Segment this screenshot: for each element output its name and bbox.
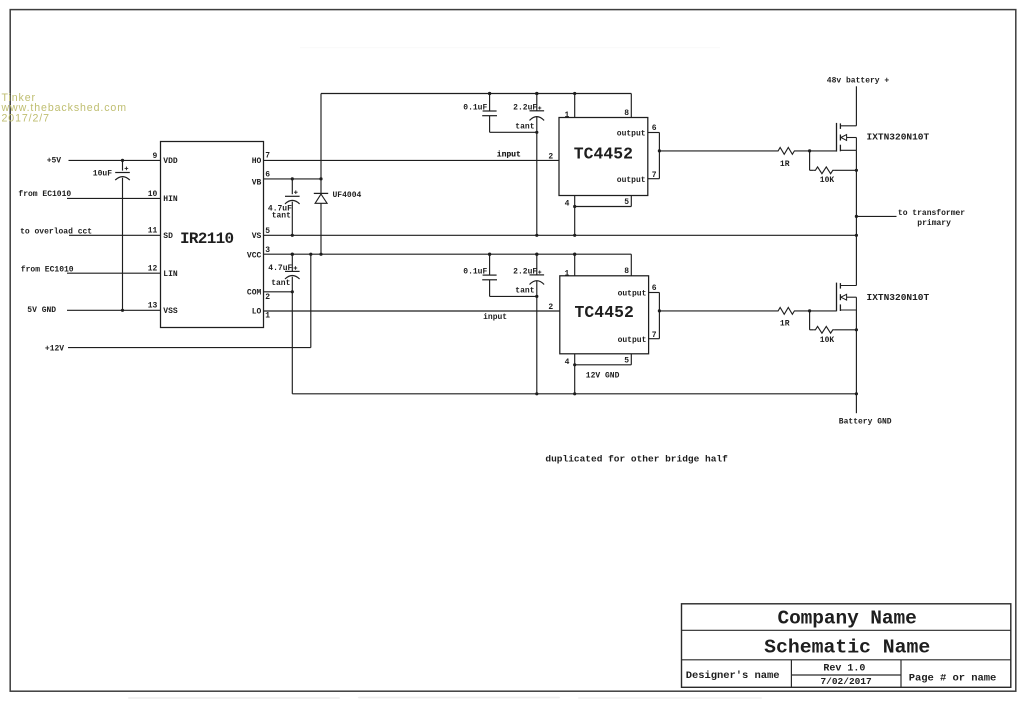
- svg-text:2.2uF: 2.2uF: [513, 267, 537, 276]
- svg-text:48v battery +: 48v battery +: [827, 76, 890, 85]
- svg-text:from EC1010: from EC1010: [21, 266, 74, 275]
- svg-text:tant: tant: [271, 279, 290, 288]
- svg-text:4: 4: [565, 358, 570, 367]
- svg-text:2: 2: [265, 293, 270, 302]
- svg-text:5: 5: [265, 227, 270, 236]
- svg-text:HIN: HIN: [163, 195, 178, 204]
- svg-text:input: input: [483, 313, 507, 322]
- svg-text:Rev 1.0: Rev 1.0: [823, 664, 865, 675]
- svg-text:8: 8: [624, 109, 629, 118]
- svg-text:6: 6: [265, 171, 270, 180]
- svg-text:TC4452: TC4452: [575, 303, 634, 322]
- svg-text:2017/2/7: 2017/2/7: [2, 112, 50, 124]
- svg-text:tant: tant: [515, 123, 534, 132]
- svg-text:10: 10: [148, 190, 158, 199]
- svg-text:6: 6: [652, 284, 657, 293]
- svg-text:7/02/2017: 7/02/2017: [820, 676, 872, 687]
- svg-text:VS: VS: [252, 232, 262, 241]
- svg-text:13: 13: [148, 302, 158, 311]
- svg-text:duplicated for other bridge ha: duplicated for other bridge half: [545, 454, 728, 465]
- svg-text:1R: 1R: [780, 320, 790, 329]
- svg-text:to transformer: to transformer: [898, 209, 965, 218]
- svg-text:5: 5: [624, 356, 629, 365]
- svg-text:1: 1: [564, 111, 569, 120]
- svg-text:output: output: [618, 336, 647, 345]
- svg-text:Battery GND: Battery GND: [839, 418, 892, 427]
- svg-text:0.1uF: 0.1uF: [463, 103, 487, 112]
- svg-text:0.1uF: 0.1uF: [463, 267, 487, 276]
- svg-text:tant: tant: [515, 287, 534, 296]
- svg-text:COM: COM: [247, 288, 262, 297]
- svg-text:9: 9: [152, 152, 157, 161]
- svg-text:11: 11: [148, 227, 158, 236]
- svg-text:5: 5: [624, 198, 629, 207]
- svg-text:tant: tant: [272, 211, 291, 220]
- svg-text:input: input: [497, 150, 521, 159]
- svg-text:2.2uF: 2.2uF: [513, 103, 537, 112]
- svg-text:output: output: [617, 176, 646, 185]
- svg-text:6: 6: [652, 124, 657, 133]
- svg-text:4.7uF: 4.7uF: [268, 264, 292, 273]
- svg-text:7: 7: [652, 171, 657, 180]
- svg-text:10K: 10K: [820, 336, 835, 345]
- svg-text:UF4004: UF4004: [333, 191, 362, 200]
- svg-text:7: 7: [265, 152, 270, 161]
- svg-text:IR2110: IR2110: [180, 230, 234, 248]
- svg-text:LO: LO: [252, 308, 262, 317]
- svg-text:VCC: VCC: [247, 251, 262, 260]
- svg-text:Schematic Name: Schematic Name: [764, 636, 930, 658]
- svg-text:from EC1010: from EC1010: [18, 190, 71, 199]
- svg-text:Page # or name: Page # or name: [909, 673, 997, 685]
- svg-text:HO: HO: [252, 157, 262, 166]
- svg-text:output: output: [617, 130, 646, 139]
- svg-text:8: 8: [624, 267, 629, 276]
- svg-text:10K: 10K: [820, 176, 835, 185]
- svg-text:Company Name: Company Name: [777, 608, 916, 630]
- svg-text:10uF: 10uF: [93, 170, 112, 179]
- svg-text:3: 3: [265, 246, 270, 255]
- svg-text:2: 2: [548, 152, 553, 161]
- svg-text:VB: VB: [252, 178, 262, 187]
- svg-text:4: 4: [565, 200, 570, 209]
- svg-text:LIN: LIN: [163, 270, 178, 279]
- svg-text:SD: SD: [163, 232, 173, 241]
- svg-text:primary: primary: [917, 219, 951, 228]
- svg-text:5V GND: 5V GND: [27, 306, 56, 315]
- svg-text:Designer's name: Designer's name: [686, 670, 780, 682]
- svg-text:7: 7: [652, 331, 657, 340]
- svg-text:2: 2: [548, 303, 553, 312]
- svg-text:+12V: +12V: [45, 344, 64, 353]
- svg-text:IXTN320N10T: IXTN320N10T: [867, 132, 930, 143]
- svg-text:1R: 1R: [780, 160, 790, 169]
- svg-text:VSS: VSS: [163, 307, 178, 316]
- svg-text:12V GND: 12V GND: [586, 372, 620, 381]
- svg-text:IXTN320N10T: IXTN320N10T: [867, 292, 930, 303]
- svg-text:1: 1: [564, 269, 569, 278]
- svg-text:TC4452: TC4452: [574, 145, 633, 164]
- svg-text:output: output: [618, 290, 647, 299]
- svg-text:1: 1: [265, 312, 270, 321]
- svg-text:12: 12: [148, 265, 158, 274]
- svg-text:+5V: +5V: [47, 157, 62, 166]
- svg-text:VDD: VDD: [163, 157, 178, 166]
- svg-text:to overload cct: to overload cct: [20, 228, 92, 237]
